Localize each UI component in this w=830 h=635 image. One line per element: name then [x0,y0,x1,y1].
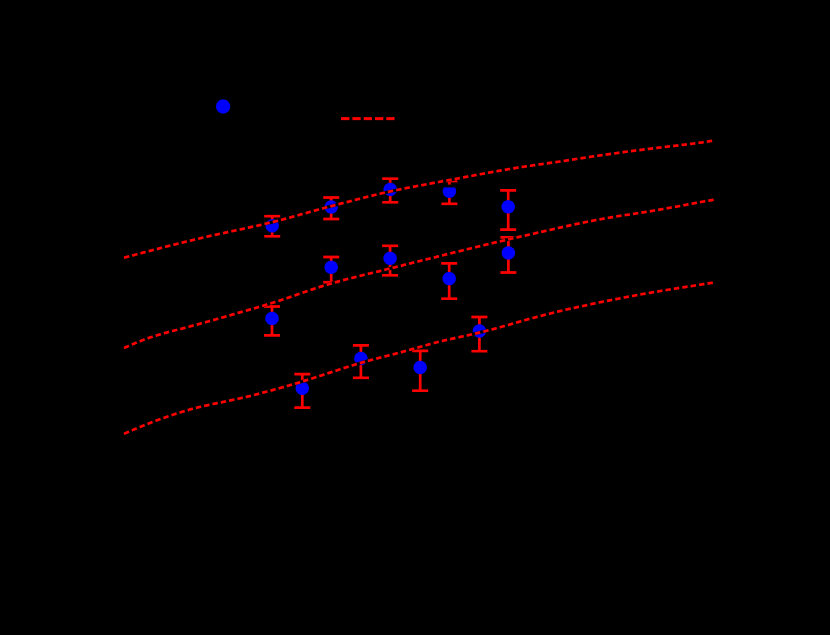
hidden solid under middle curve [124,200,715,349]
data point T3 [384,183,397,196]
bottom dashed curve [124,282,715,433]
hidden solid under bottom curve [124,282,715,433]
data point M5 [502,246,515,259]
error bar M2 [323,257,339,282]
error bar M5 [500,237,516,272]
top dashed curve [124,140,715,257]
error bar T3 [382,179,398,203]
error bar B3 [412,351,428,391]
error bar B4 [471,317,487,351]
data point M2 [325,261,338,274]
data point B1 [296,382,309,395]
occluder over T4 [441,183,457,188]
error bar T4 [441,181,457,204]
error bar M3 [382,246,398,275]
data point B3 [414,361,427,374]
data point B2 [354,352,367,365]
error bar B1 [294,374,310,408]
legend dashed line sample [341,117,394,120]
hidden solid under top curve [124,140,715,257]
data point T1 [266,219,279,232]
error bar M1 [264,307,280,336]
data point T2 [325,200,338,213]
error bar M4 [441,263,457,298]
middle dashed curve [124,200,715,349]
legend marker dot [216,99,230,113]
error bar T5 [500,190,516,229]
error bar T1 [264,216,280,236]
data point T4 [443,185,456,198]
error bar T2 [323,198,339,220]
data point B4 [473,324,486,337]
data point T5 [502,200,515,213]
data point M4 [443,272,456,285]
data point M1 [265,312,278,325]
data point M3 [383,252,396,265]
error bar B2 [353,345,369,377]
